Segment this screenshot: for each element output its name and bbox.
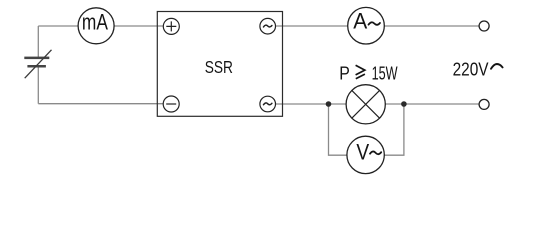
wire left vertical upper: source top (37, 26, 39, 57)
AC ammeter A~ (348, 7, 385, 44)
svg-text:220V: 220V (453, 59, 489, 80)
top terminal (479, 21, 489, 31)
wire voltmeter branch right (384, 104, 404, 155)
lamp (346, 85, 385, 124)
milliammeter mA (78, 8, 114, 44)
SSR ac terminal top (260, 18, 276, 34)
svg-text:V: V (356, 139, 369, 164)
wire bottom rail left: source to SSR minus terminal (38, 103, 163, 105)
svg-text:A: A (353, 9, 367, 34)
adjustable DC source: diagonal slash (25, 50, 52, 78)
SSR ac terminal bottom (260, 96, 276, 112)
SSR box (157, 12, 282, 117)
label P >= 15W (339, 64, 398, 85)
wire SSR tilde bottom to lamp (276, 103, 347, 105)
adjustable DC source: top plate (24, 57, 49, 60)
SSR plus terminal (163, 18, 179, 34)
junction dot right of lamp (401, 101, 407, 107)
wire mA to SSR plus terminal (114, 25, 163, 27)
adjustable DC source: bottom plate (27, 65, 46, 68)
label 220V~ (453, 59, 503, 80)
AC voltmeter V~ (347, 136, 384, 173)
wire A meter to top terminal (384, 25, 479, 27)
svg-text:P: P (339, 64, 350, 85)
junction dot left of lamp (326, 101, 332, 107)
SSR minus terminal (163, 96, 179, 112)
svg-text:15W: 15W (372, 64, 398, 85)
bottom terminal (479, 99, 489, 109)
wire voltmeter branch left (329, 104, 347, 155)
wire top rail left: source to mA (38, 25, 78, 27)
wire left vertical lower: source bottom (37, 67, 39, 103)
wire SSR tilde top to A meter (276, 25, 348, 27)
svg-text:SSR: SSR (205, 57, 233, 77)
wire lamp to bottom terminal (385, 103, 479, 105)
svg-text:mA: mA (82, 9, 108, 34)
